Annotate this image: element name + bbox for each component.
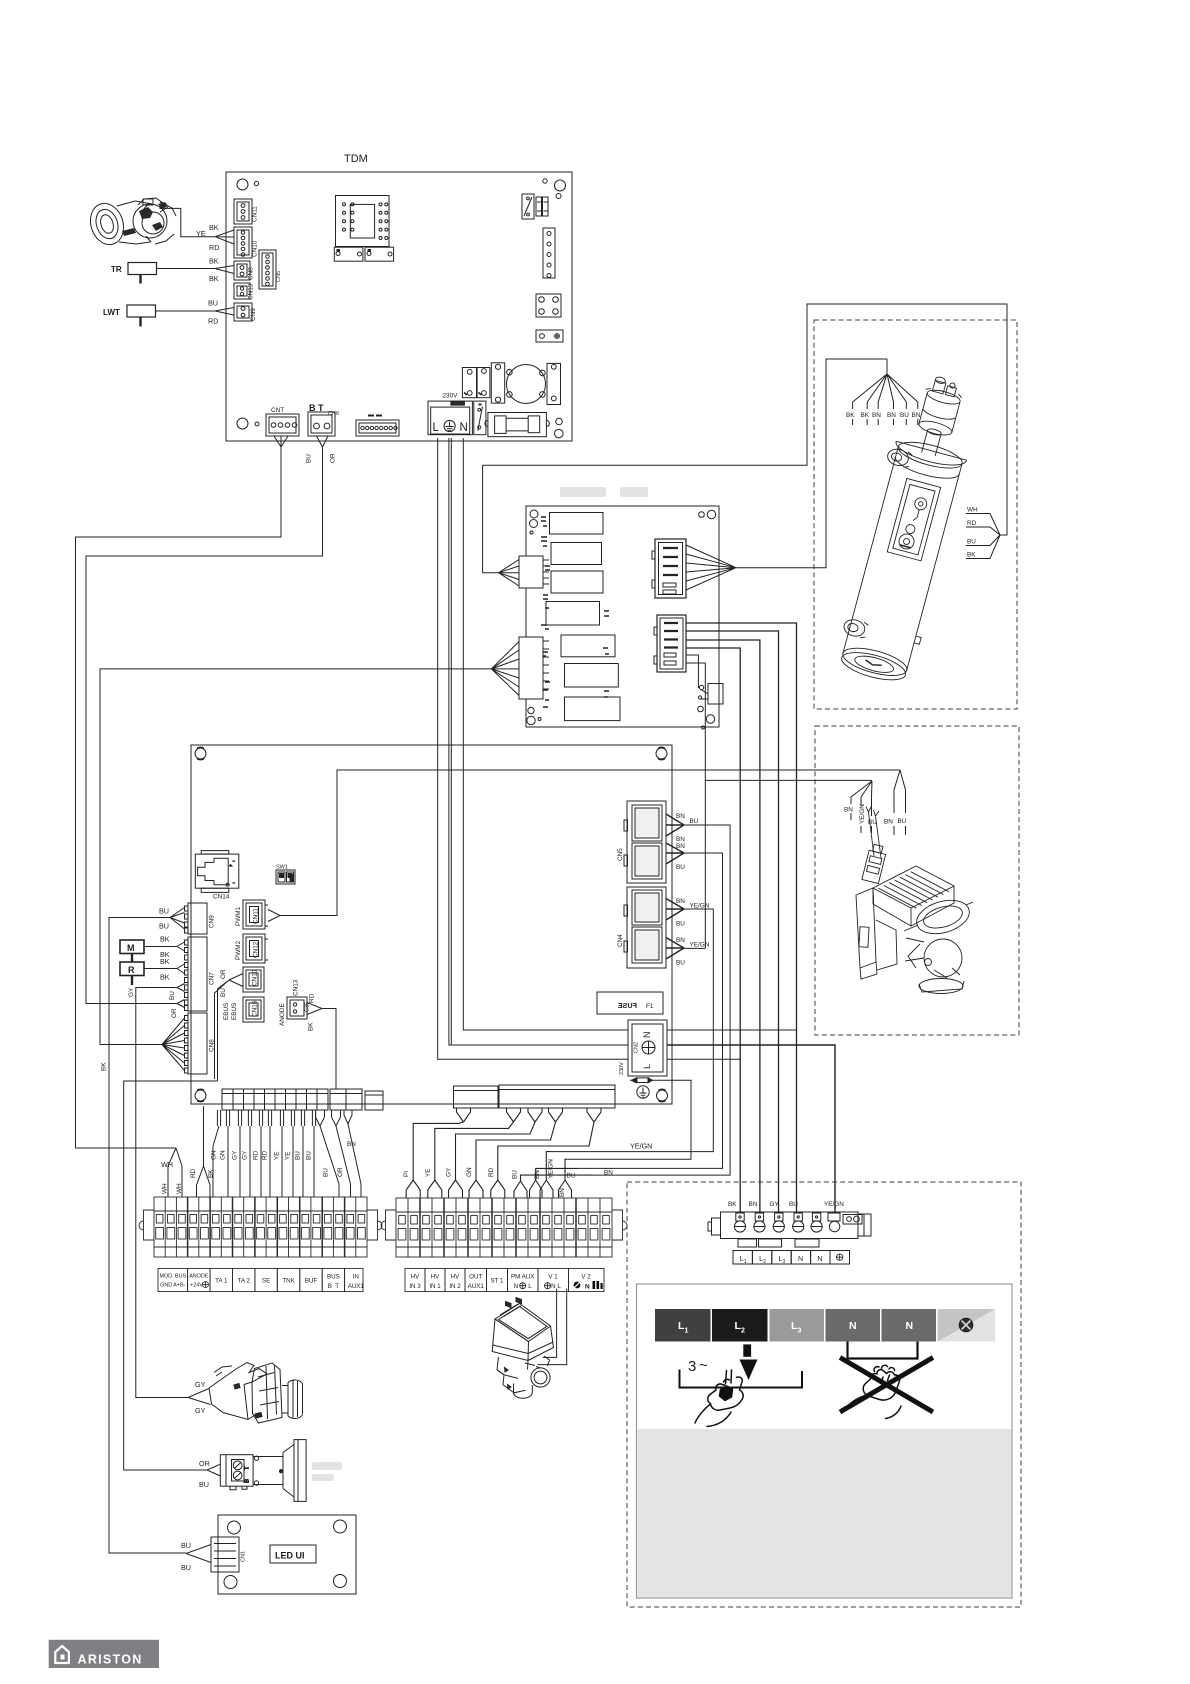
svg-text:ARISTON: ARISTON	[78, 1653, 143, 1667]
svg-text:BK: BK	[160, 973, 170, 982]
svg-text:GN: GN	[220, 1150, 227, 1160]
svg-text:2: 2	[741, 1328, 745, 1335]
relay RA7	[565, 697, 621, 721]
connector CN7 (main left)	[185, 937, 216, 1011]
circulation pump	[856, 806, 973, 994]
heater dashed enclosure	[814, 320, 1017, 709]
prohibition cross X	[840, 1358, 933, 1413]
connector CN8 (TDM)	[234, 261, 255, 280]
connector CN1 (LED UI)	[211, 1537, 239, 1572]
svg-text:GY: GY	[232, 1150, 239, 1160]
svg-text:BUF: BUF	[305, 1278, 318, 1285]
svg-text:IN 3: IN 3	[409, 1283, 421, 1290]
svg-text:BU: BU	[220, 988, 227, 997]
fan: CN4 lower BN YE/GN BU	[666, 937, 710, 967]
connector CNT (TDM)	[266, 407, 299, 436]
mains label bar L1 L2 L3 N N earth	[655, 1309, 995, 1342]
svg-text:BK: BK	[967, 552, 976, 559]
connector CN10 OR BU	[220, 967, 264, 997]
svg-text:CN14: CN14	[213, 894, 230, 901]
connector CN5	[617, 801, 666, 883]
wire: relay K4 pin6 to pump power	[686, 663, 872, 948]
svg-text:CN5: CN5	[617, 848, 624, 861]
wires: HV strip inputs PI YE GY GN RD	[406, 1108, 601, 1198]
switch SW (TDM)	[474, 401, 486, 435]
pointing hand	[695, 1370, 743, 1427]
svg-text:BK: BK	[101, 1062, 108, 1071]
svg-text:M: M	[127, 943, 135, 953]
svg-text:BN: BN	[676, 898, 685, 905]
svg-text:L: L	[433, 422, 440, 434]
svg-text:BK: BK	[846, 412, 855, 419]
power connector L-earth-N 230V (TDM)	[428, 393, 472, 435]
svg-text:V 1: V 1	[548, 1274, 558, 1281]
heater lower nozzle	[842, 617, 866, 638]
svg-text:BN: BN	[872, 412, 881, 419]
svg-text:RD: RD	[208, 317, 218, 326]
DIP switch SW1	[276, 865, 295, 885]
svg-text:BU: BU	[295, 1151, 302, 1160]
main control board	[120, 745, 710, 1110]
wire: flow sensor to CN10	[159, 208, 234, 252]
svg-text:YE/GN: YE/GN	[824, 1201, 844, 1208]
svg-text:BU: BU	[199, 1480, 209, 1489]
wire: CNT cable to MOD BUS terminals	[76, 436, 289, 1197]
fan: CN7 M BK BK	[144, 935, 185, 960]
connector J2 (relay board lower-left, white)	[519, 637, 549, 699]
heater cable fan BK BK BN BN BU BN	[846, 359, 921, 425]
immersion heater element	[831, 369, 987, 687]
svg-text:HV: HV	[451, 1274, 460, 1281]
passive parts cluster	[541, 517, 550, 707]
svg-text:YE/GN: YE/GN	[547, 1159, 554, 1179]
svg-text:TA 1: TA 1	[215, 1278, 228, 1285]
connector CN12 5-pin vertical (TDM)	[543, 228, 555, 278]
svg-text:CN10: CN10	[252, 240, 259, 257]
svg-text:PWM2: PWM2	[235, 940, 242, 960]
svg-text:2: 2	[763, 1259, 766, 1265]
heater control panel	[887, 478, 940, 560]
svg-text:V 2: V 2	[581, 1274, 591, 1281]
svg-text:RD: RD	[190, 1168, 197, 1178]
svg-text:GN: GN	[466, 1167, 473, 1177]
wire: CN2 earth to mains terminal	[667, 1045, 835, 1212]
fuse F1 (TDM)	[485, 413, 550, 437]
wire: relay K5 to heater cable fan	[736, 359, 887, 568]
svg-text:RD: RD	[967, 520, 977, 527]
right terminal strip	[381, 1198, 627, 1257]
screw hole top-right	[543, 179, 547, 183]
svg-text:IN 2: IN 2	[449, 1283, 461, 1290]
svg-text:F1: F1	[646, 1003, 654, 1010]
svg-text:GY: GY	[195, 1380, 206, 1389]
svg-text:BN: BN	[676, 836, 685, 843]
fan: J2 to main board wire	[491, 642, 519, 696]
svg-text:YE: YE	[425, 1168, 432, 1177]
svg-text:BU: BU	[181, 1541, 191, 1550]
connector CN16 EBUS	[223, 997, 264, 1022]
svg-text:BU: BU	[306, 1151, 313, 1160]
temperature probe TR (external)	[111, 263, 157, 284]
jumper component top-right	[522, 194, 548, 219]
svg-text:RD: RD	[209, 243, 219, 252]
transformer T1	[507, 365, 546, 404]
svg-text:BU: BU	[868, 819, 877, 826]
screw holes main board	[195, 747, 206, 760]
svg-text:BN: BN	[676, 843, 685, 850]
power connector CN2 230V	[619, 1020, 667, 1076]
svg-text:B: B	[245, 1479, 251, 1483]
pump cable fan BN BU (upper)	[884, 770, 907, 835]
LED UI display board	[211, 1515, 356, 1594]
thermal fuse component (relay board bottom-right)	[698, 684, 723, 705]
svg-text:BN: BN	[534, 1170, 541, 1179]
svg-text:AUX1: AUX1	[348, 1283, 365, 1290]
connector CN14 4-pad (TDM)	[536, 294, 561, 317]
svg-text:CN11: CN11	[252, 206, 259, 222]
wire: CN4 upper to V1 earth	[551, 909, 713, 1152]
svg-text:N: N	[585, 1284, 590, 1291]
flow switch	[220, 1440, 306, 1502]
svg-text:IN 1: IN 1	[429, 1283, 441, 1290]
temperature probe LWT (external)	[103, 305, 156, 327]
svg-text:CN4: CN4	[617, 934, 624, 947]
bottom connector block A	[222, 1089, 328, 1110]
left terminal strip	[139, 1197, 382, 1257]
svg-text:N: N	[798, 1256, 803, 1263]
wire: TDM earth pair to CN2	[449, 438, 628, 1045]
connector CN13 ANODE	[279, 979, 336, 1089]
svg-text:GN: GN	[211, 1150, 218, 1160]
svg-text:ANODE: ANODE	[189, 1274, 209, 1280]
svg-text:BU: BU	[690, 818, 699, 825]
connector CN12 PWM2	[235, 934, 268, 963]
svg-text:YE: YE	[196, 229, 206, 238]
wires: low voltage strip inputs GN GN GY GY RD RD YE YE BU BU	[213, 1110, 316, 1197]
fan: flow switch OR BU	[199, 1459, 220, 1489]
arrow to L2	[740, 1344, 758, 1380]
svg-text:T: T	[245, 1466, 251, 1470]
svg-text:L: L	[528, 1283, 532, 1290]
svg-text:RD: RD	[253, 1150, 260, 1160]
svg-text:EBUS: EBUS	[231, 1003, 238, 1020]
wire: PWM1 to pump	[280, 770, 900, 916]
pad P1	[536, 330, 563, 342]
svg-text:CN7: CN7	[209, 972, 216, 985]
svg-text:CN2: CN2	[634, 1042, 640, 1053]
relay RA6	[565, 664, 619, 688]
svg-text:YE: YE	[285, 1151, 292, 1160]
svg-text:N: N	[906, 1320, 914, 1332]
fan: pressure sensor GY GY	[188, 1380, 211, 1415]
svg-text:BU: BU	[900, 412, 909, 419]
svg-text:TR: TR	[111, 265, 122, 274]
svg-text:CN10: CN10	[252, 969, 259, 986]
wire: LWT to CN9	[156, 299, 235, 326]
pump head flange	[913, 895, 973, 940]
fan: CN8	[162, 1018, 185, 1071]
svg-text:B T: B T	[328, 1283, 340, 1290]
svg-text:BN: BN	[844, 807, 853, 814]
svg-text:WH: WH	[162, 1183, 169, 1194]
connector CN9 (main left)	[185, 903, 216, 934]
svg-text:N: N	[514, 1283, 518, 1290]
wire: ANODE RD BK cable to strip	[190, 1106, 215, 1197]
svg-text:~: ~	[699, 1357, 708, 1374]
svg-text:N: N	[849, 1320, 857, 1332]
svg-text:3: 3	[688, 1358, 696, 1375]
screw hole bottom-right	[556, 418, 563, 425]
fan: J1 to TDM relay wire	[499, 560, 519, 587]
svg-text:BN: BN	[749, 1201, 758, 1208]
connector CN14 RJ jack	[195, 851, 239, 901]
svg-text:N: N	[817, 1256, 822, 1263]
svg-text:BN: BN	[347, 1141, 356, 1148]
wire: relay J1 to heater power	[483, 304, 1007, 573]
connector CN4	[617, 887, 666, 968]
pump terminal box	[856, 888, 876, 968]
svg-text:PM AUX: PM AUX	[511, 1274, 534, 1281]
actuator R	[120, 962, 144, 985]
svg-text:BK: BK	[160, 935, 170, 944]
bracket under 3~	[680, 1370, 803, 1388]
svg-text:OR: OR	[337, 1167, 344, 1177]
svg-text:SE: SE	[262, 1278, 270, 1285]
connector CN8 (main left)	[185, 1013, 216, 1074]
pump dashed enclosure	[815, 726, 1019, 1035]
wire: relay K4 pin3 to mains terminal BN	[686, 640, 760, 1212]
flow sensor (external, top-left)	[85, 198, 176, 249]
svg-text:YE/GN: YE/GN	[690, 903, 710, 910]
bottom connector block E	[499, 1085, 615, 1108]
svg-text:AUX1: AUX1	[468, 1283, 485, 1290]
svg-text:CN16: CN16	[252, 1000, 259, 1017]
connector K5 (relay board upper-right, black)	[652, 539, 686, 598]
pressure sensor	[209, 1363, 303, 1424]
wire: CN10 OR BU to flow switch	[124, 980, 229, 1470]
svg-text:MOD. BUS: MOD. BUS	[159, 1274, 186, 1280]
fan: PWM1 wire	[268, 910, 280, 922]
mains terminal block L1 L2 L3 N N earth	[708, 1212, 871, 1264]
svg-text:BN: BN	[676, 937, 685, 944]
svg-text:N L: N L	[551, 1283, 561, 1290]
bottom connector block B	[330, 1089, 362, 1110]
svg-text:230V: 230V	[443, 393, 459, 400]
earth symbol	[637, 1086, 649, 1098]
svg-text:LWT: LWT	[103, 308, 120, 317]
svg-text:WH: WH	[161, 1160, 173, 1169]
svg-text:YE/GN: YE/GN	[690, 942, 710, 949]
svg-text:ST 1: ST 1	[491, 1278, 505, 1285]
instruction panel	[637, 1284, 1013, 1598]
connector K4 (relay board lower-right, black)	[654, 615, 686, 672]
bottom connector block D	[454, 1086, 499, 1108]
wire: relay K4 pin2 to mains terminal GY	[686, 631, 779, 1212]
svg-text:CN9: CN9	[250, 308, 257, 321]
pump cable fan BN YE/GN BU (lower)	[844, 781, 877, 833]
svg-text:PWM1: PWM1	[235, 906, 242, 926]
svg-text:1: 1	[685, 1328, 689, 1335]
fuse F1	[597, 992, 663, 1014]
fuse symbol below CN2	[630, 1078, 654, 1083]
heater neck	[922, 430, 941, 456]
svg-text:CN11: CN11	[253, 908, 260, 924]
fan: CN9 BU BU	[159, 907, 185, 931]
svg-text:BN: BN	[884, 819, 893, 826]
svg-text:CN13: CN13	[293, 979, 300, 996]
svg-text:BU: BU	[323, 1168, 330, 1177]
svg-text:BU: BU	[789, 1201, 798, 1208]
fan: CN5 lower BN BU	[666, 843, 685, 871]
faint ghost marks	[312, 487, 648, 1481]
svg-text:L: L	[642, 1064, 652, 1069]
svg-text:RD: RD	[262, 1150, 269, 1160]
svg-text:TNK: TNK	[282, 1278, 295, 1285]
svg-text:BN: BN	[912, 412, 921, 419]
svg-text:230V: 230V	[619, 1062, 625, 1075]
screw hole bottom-left	[237, 418, 248, 429]
svg-text:BN: BN	[676, 813, 685, 820]
svg-text:WH: WH	[176, 1183, 183, 1194]
svg-text:BU: BU	[967, 539, 976, 546]
wire: fuse to HV strip BU	[566, 1080, 691, 1159]
svg-text:CNT: CNT	[271, 407, 284, 414]
svg-text:TA 2: TA 2	[238, 1278, 251, 1285]
svg-text:GY: GY	[242, 1150, 249, 1160]
fan: CN7 R BK BK	[144, 957, 185, 982]
relay RA2	[551, 543, 602, 565]
wire: V1 to diverter valve	[538, 1289, 567, 1365]
wire: TDM L to CN2	[438, 438, 628, 1059]
wire: relay K4 pin5 to HV strip	[686, 655, 700, 688]
svg-text:BK: BK	[160, 957, 170, 966]
wires: BU BN YE/GN BU from right side into strip	[514, 1152, 592, 1198]
fan: CN7 BU OR	[169, 991, 185, 1018]
relay power board	[526, 506, 719, 729]
svg-text:LED UI: LED UI	[275, 1551, 305, 1561]
svg-text:CN9: CN9	[209, 915, 216, 928]
wire: CN5 lower joins	[578, 853, 723, 1168]
connector J1 (relay board upper-left, white)	[519, 556, 549, 588]
connector CN13 (TDM)	[234, 283, 255, 300]
svg-text:IN: IN	[353, 1274, 359, 1281]
svg-text:OUT: OUT	[469, 1274, 482, 1281]
right strip label row	[405, 1269, 604, 1292]
wire: CN9 to LED UI	[109, 918, 186, 1554]
svg-text:CN5: CN5	[276, 271, 282, 282]
pump cable connector	[862, 844, 887, 884]
screw holes relay board	[530, 510, 538, 518]
svg-text:BUS: BUS	[327, 1274, 340, 1281]
wire: TR to CN8	[157, 257, 235, 284]
svg-text:BU: BU	[676, 921, 685, 928]
connector CN9 (TDM)	[234, 303, 257, 321]
svg-text:BK: BK	[209, 257, 219, 266]
svg-text:BU: BU	[512, 1170, 519, 1179]
relay RL1	[462, 368, 490, 398]
pump motor fin block	[873, 866, 954, 908]
svg-text:HV: HV	[411, 1274, 420, 1281]
svg-text:CN12: CN12	[253, 941, 260, 958]
svg-text:GY: GY	[770, 1201, 780, 1208]
fan: K5 to heater cable	[686, 545, 736, 590]
svg-text:WH: WH	[967, 507, 978, 514]
svg-text:R: R	[128, 965, 135, 975]
svg-text:BK: BK	[861, 412, 870, 419]
bottom connector block C	[365, 1091, 383, 1110]
svg-text:1: 1	[744, 1259, 747, 1265]
svg-text:BU: BU	[159, 922, 169, 931]
TDM control board	[226, 153, 572, 441]
wire: relay K4 pin4 to mains terminal BK	[686, 648, 740, 1212]
relay K1 pads	[334, 247, 393, 261]
svg-text:GY: GY	[446, 1167, 453, 1177]
connector CN10 (TDM)	[234, 227, 259, 258]
svg-text:GY: GY	[195, 1406, 206, 1415]
svg-text:BU: BU	[208, 299, 218, 308]
relay RL2	[491, 363, 504, 403]
svg-text:CN13: CN13	[248, 283, 255, 300]
svg-text:+24V: +24V	[190, 1283, 203, 1289]
svg-text:BN: BN	[604, 1170, 613, 1177]
svg-text:BN: BN	[887, 412, 896, 419]
svg-text:BU: BU	[181, 1563, 191, 1572]
wire: relay K4 pin1 to mains terminal BU	[686, 623, 797, 1212]
svg-text:BK: BK	[209, 223, 219, 232]
heater upper nozzle	[886, 447, 910, 468]
wire: CN6 B T cable to CN7	[86, 436, 337, 1004]
svg-text:YE/GN: YE/GN	[859, 804, 866, 824]
svg-text:ANODE: ANODE	[279, 1003, 286, 1026]
svg-text:RD: RD	[488, 1167, 495, 1177]
svg-text:N: N	[642, 1032, 652, 1039]
svg-text:BK: BK	[209, 274, 219, 283]
svg-text:OR: OR	[171, 1008, 178, 1018]
connector CN5 6-pin (TDM)	[259, 250, 282, 289]
svg-text:OR: OR	[199, 1459, 210, 1468]
N-N jumper	[848, 1342, 918, 1359]
pump volute	[924, 939, 962, 977]
relay RA3	[551, 571, 603, 593]
svg-text:YE: YE	[274, 1151, 281, 1160]
svg-text:OR: OR	[220, 969, 227, 979]
wire: CN4 lower joins	[684, 947, 705, 949]
heater sensor fan WH RD BU BK	[966, 507, 1000, 559]
relay RA4	[546, 602, 600, 626]
svg-text:BU: BU	[169, 991, 176, 1000]
fan: CN5 upper BN BU BN	[666, 813, 699, 843]
svg-text:BU: BU	[159, 907, 169, 916]
svg-text:CN8: CN8	[248, 267, 255, 280]
svg-text:CN1: CN1	[241, 1551, 247, 1562]
svg-text:BU: BU	[567, 1173, 576, 1180]
wire: relay board J2 to CN8	[100, 669, 491, 1045]
diverter valve	[492, 1298, 553, 1399]
svg-text:BK: BK	[308, 1022, 315, 1031]
svg-text:BU: BU	[676, 960, 685, 967]
svg-text:GY: GY	[128, 987, 135, 997]
connector CN11 (TDM)	[234, 199, 259, 224]
svg-text:BU: BU	[898, 818, 907, 825]
forbidden hand	[845, 1365, 901, 1418]
wire: CN5 upper to HV strip	[592, 825, 730, 1175]
wire: CN2 L bus	[667, 1058, 740, 1060]
svg-text:GND A+B-: GND A+B-	[160, 1283, 186, 1289]
ARISTON logo	[49, 1640, 159, 1668]
svg-text:BU: BU	[306, 454, 313, 463]
svg-text:RD: RD	[309, 993, 316, 1003]
svg-text:FUSE: FUSE	[618, 1001, 637, 1010]
